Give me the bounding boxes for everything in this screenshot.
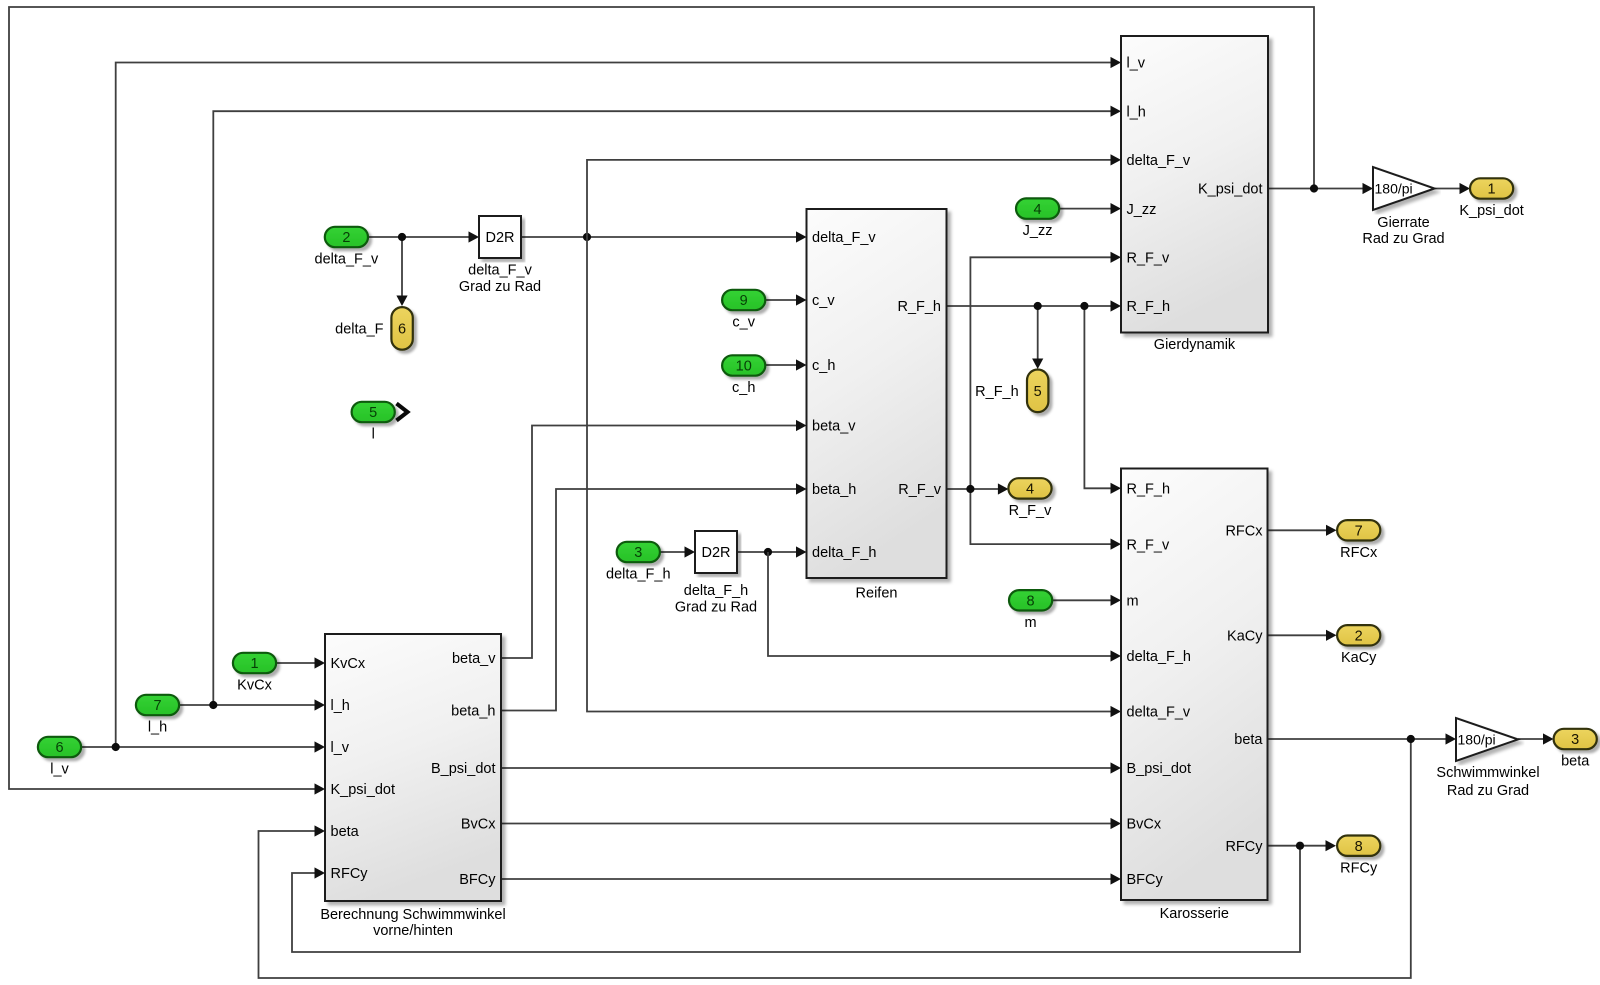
- svg-text:10: 10: [736, 359, 752, 375]
- svg-text:delta_F_v: delta_F_v: [1127, 705, 1191, 721]
- svg-text:KvCx: KvCx: [331, 656, 366, 672]
- junction l_h branch: [209, 701, 217, 709]
- wire gain Gierrate to outport K_psi_dot: [1435, 183, 1471, 194]
- svg-text:l_v: l_v: [1127, 56, 1146, 72]
- wire beta Karosserie to gain Schwimmwinkel: [1268, 733, 1456, 744]
- wire BFCy Berechnung to Karosserie: [501, 873, 1121, 884]
- svg-text:m: m: [1127, 594, 1139, 610]
- svg-text:J_zz: J_zz: [1127, 202, 1157, 218]
- port oval inport 6 l_v: [38, 737, 81, 757]
- wire beta_h Berechnung to Reifen: [501, 483, 807, 710]
- svg-text:K_psi_dot: K_psi_dot: [1459, 203, 1524, 219]
- svg-text:1: 1: [250, 656, 258, 672]
- gain block D2R delta_F_h Grad zu Rad: [695, 531, 737, 573]
- svg-text:RFCy: RFCy: [1225, 839, 1263, 855]
- subsystem block Karosserie: [1121, 469, 1268, 901]
- svg-text:8: 8: [1027, 594, 1035, 610]
- svg-text:Gierdynamik: Gierdynamik: [1154, 337, 1236, 353]
- wire D2R delta_F_v to Reifen: [521, 231, 807, 242]
- junction R_F_h branch 1: [1034, 302, 1042, 310]
- wire delta_F_v rad to Karosserie: [587, 237, 1121, 717]
- svg-text:Rad zu Grad: Rad zu Grad: [1447, 783, 1529, 799]
- svg-text:delta_F_h: delta_F_h: [1127, 649, 1192, 665]
- port oval outport 1 K_psi_dot: [1470, 178, 1513, 198]
- svg-text:R_F_v: R_F_v: [1009, 503, 1052, 519]
- wire KaCy to outport 2: [1268, 630, 1337, 641]
- subsystem block Gierdynamik: [1121, 36, 1268, 333]
- svg-text:Grad zu Rad: Grad zu Rad: [459, 279, 541, 295]
- wire R_F_h to outport 5: [1032, 306, 1043, 369]
- svg-text:180/pi: 180/pi: [1375, 181, 1413, 197]
- wire RFCy to outport 8: [1268, 840, 1336, 851]
- port oval inport 8 m: [1009, 590, 1052, 610]
- wire KvCx inport to Berechnung: [276, 657, 325, 668]
- wire beta feedback to Berechnung: [259, 739, 1411, 978]
- svg-text:R_F_h: R_F_h: [897, 299, 941, 315]
- svg-text:beta_h: beta_h: [451, 704, 495, 720]
- svg-text:delta_F_v: delta_F_v: [1127, 153, 1191, 169]
- svg-text:delta_F_v: delta_F_v: [315, 252, 379, 268]
- svg-text:RFCx: RFCx: [1225, 524, 1263, 540]
- wire R_F_v Reifen to outport 4: [947, 483, 1009, 494]
- svg-text:delta_F_h: delta_F_h: [684, 583, 749, 599]
- svg-text:BFCy: BFCy: [1127, 872, 1164, 888]
- port oval inport 4 J_zz: [1016, 198, 1059, 218]
- port oval inport 3 delta_F_h: [617, 542, 660, 562]
- svg-text:R_F_v: R_F_v: [1127, 251, 1170, 267]
- wire c_h inport to Reifen: [765, 359, 806, 370]
- wire gain Schwimmwinkel to outport beta: [1518, 733, 1554, 744]
- svg-text:c_h: c_h: [812, 358, 835, 374]
- svg-text:3: 3: [634, 545, 642, 561]
- svg-text:K_psi_dot: K_psi_dot: [331, 782, 396, 798]
- wire K_psi_dot feedback loop: [9, 7, 1314, 795]
- svg-text:Schwimmwinkel: Schwimmwinkel: [1436, 765, 1539, 781]
- wire BvCx Berechnung to Karosserie: [501, 818, 1121, 829]
- gain triangle 180/pi Gierrate Rad zu Grad: [1373, 167, 1435, 210]
- junction R_F_h branch 2: [1080, 302, 1088, 310]
- wire beta_v Berechnung to Reifen: [501, 420, 807, 658]
- port oval inport 10 c_h: [722, 355, 765, 375]
- port oval outport 8 RFCy: [1337, 836, 1380, 856]
- svg-text:D2R: D2R: [701, 545, 730, 561]
- svg-text:5: 5: [1034, 384, 1042, 400]
- svg-text:9: 9: [740, 293, 748, 309]
- wire K_psi_dot to gain Gierrate: [1268, 183, 1373, 194]
- gain block D2R delta_F_v Grad zu Rad: [479, 216, 521, 258]
- wire l_v to Gierdynamik: [116, 57, 1121, 747]
- port oval inport 1 KvCx: [233, 653, 276, 673]
- svg-text:RFCy: RFCy: [331, 866, 369, 882]
- svg-text:R_F_v: R_F_v: [1127, 537, 1170, 553]
- svg-text:KvCx: KvCx: [237, 678, 272, 694]
- svg-text:BFCy: BFCy: [459, 872, 496, 888]
- junction delta_F_h rad branch: [764, 548, 772, 556]
- port oval inport 5 l: [352, 402, 395, 422]
- svg-text:delta_F_h: delta_F_h: [812, 545, 877, 561]
- svg-text:J_zz: J_zz: [1023, 223, 1053, 239]
- junction K_psi_dot branch: [1310, 184, 1318, 192]
- svg-text:6: 6: [55, 740, 63, 756]
- svg-text:BvCx: BvCx: [1127, 817, 1162, 833]
- svg-text:l_v: l_v: [331, 740, 350, 756]
- svg-text:beta: beta: [1561, 754, 1590, 770]
- svg-text:D2R: D2R: [485, 230, 514, 246]
- junction R_F_v branch: [966, 485, 974, 493]
- svg-text:c_h: c_h: [732, 380, 755, 396]
- svg-text:B_psi_dot: B_psi_dot: [431, 761, 496, 777]
- svg-text:Rad zu Grad: Rad zu Grad: [1362, 231, 1444, 247]
- svg-text:Karosserie: Karosserie: [1160, 906, 1229, 922]
- junction delta_F_v rad branch: [583, 233, 591, 241]
- wire J_zz inport to Gierdynamik: [1059, 203, 1121, 214]
- wire delta_F_v rad to Gierdynamik: [587, 154, 1121, 237]
- svg-text:delta_F: delta_F: [335, 321, 384, 337]
- svg-text:R_F_h: R_F_h: [1127, 299, 1171, 315]
- port oval inport 2 delta_F_v: [325, 227, 368, 247]
- svg-text:Grad zu Rad: Grad zu Rad: [675, 600, 757, 616]
- svg-text:BvCx: BvCx: [461, 817, 496, 833]
- svg-text:beta_v: beta_v: [452, 651, 496, 667]
- junction RFCy branch: [1296, 842, 1304, 850]
- junction l_v branch: [112, 743, 120, 751]
- svg-text:delta_F_v: delta_F_v: [468, 263, 532, 279]
- port oval outport 6 delta_F: [391, 307, 412, 350]
- wire RFCy feedback to Berechnung: [292, 846, 1300, 952]
- svg-text:180/pi: 180/pi: [1458, 732, 1496, 748]
- svg-text:c_v: c_v: [812, 293, 835, 309]
- svg-text:R_F_h: R_F_h: [975, 384, 1019, 400]
- svg-text:R_F_h: R_F_h: [1127, 482, 1171, 498]
- svg-text:R_F_v: R_F_v: [898, 482, 941, 498]
- unconnected chevron for inport 5: [397, 404, 408, 421]
- svg-text:1: 1: [1488, 182, 1496, 198]
- port oval inport 9 c_v: [722, 290, 765, 310]
- svg-text:l_h: l_h: [331, 698, 350, 714]
- svg-text:K_psi_dot: K_psi_dot: [1198, 182, 1263, 198]
- wire l_v inport to Berechnung: [81, 741, 325, 752]
- svg-text:RFCx: RFCx: [1340, 545, 1378, 561]
- wire delta_F_h rad to Karosserie: [768, 552, 1121, 662]
- svg-text:B_psi_dot: B_psi_dot: [1127, 761, 1192, 777]
- svg-text:Berechnung Schwimmwinkel: Berechnung Schwimmwinkel: [320, 907, 505, 923]
- wire R_F_h Reifen to Gierdynamik: [947, 300, 1122, 311]
- port oval outport 2 KaCy: [1337, 625, 1380, 645]
- svg-text:6: 6: [398, 322, 406, 338]
- svg-text:l_v: l_v: [50, 762, 69, 778]
- wire D2R delta_F_h to Reifen: [737, 546, 807, 557]
- svg-text:8: 8: [1355, 839, 1363, 855]
- svg-text:l_h: l_h: [148, 720, 167, 736]
- wire R_F_v to Karosserie: [970, 489, 1121, 550]
- svg-text:delta_F_h: delta_F_h: [606, 567, 671, 583]
- wire B_psi_dot Berechnung to Karosserie: [501, 762, 1121, 773]
- svg-text:2: 2: [342, 230, 350, 246]
- svg-text:3: 3: [1571, 732, 1579, 748]
- wire c_v inport to Reifen: [765, 294, 806, 305]
- svg-text:beta: beta: [1234, 732, 1263, 748]
- wire delta_F_v inport to D2R: [368, 231, 480, 242]
- svg-text:RFCy: RFCy: [1340, 860, 1378, 876]
- wire R_F_h to Karosserie: [1084, 306, 1121, 494]
- svg-text:4: 4: [1026, 482, 1034, 498]
- svg-text:Gierrate: Gierrate: [1377, 215, 1429, 231]
- svg-text:beta: beta: [331, 824, 360, 840]
- subsystem block Berechnung Schwimmwinkel vorne/hinten: [325, 634, 501, 901]
- junction delta_F_v branch to delta_F: [398, 233, 406, 241]
- svg-text:delta_F_v: delta_F_v: [812, 230, 876, 246]
- svg-text:2: 2: [1355, 629, 1363, 645]
- svg-text:beta_h: beta_h: [812, 482, 856, 498]
- svg-text:c_v: c_v: [732, 315, 755, 331]
- port oval outport 3 beta: [1554, 729, 1597, 749]
- wire delta_F_v to delta_F outport: [396, 237, 407, 306]
- wire l_h to Gierdynamik: [213, 106, 1121, 705]
- svg-text:beta_v: beta_v: [812, 419, 856, 435]
- wire RFCx to outport 7: [1268, 525, 1337, 536]
- svg-text:KaCy: KaCy: [1341, 650, 1377, 666]
- port oval outport 7 RFCx: [1337, 520, 1380, 540]
- svg-text:l_h: l_h: [1127, 104, 1146, 120]
- subsystem block Reifen: [807, 209, 947, 578]
- junction beta branch: [1407, 735, 1415, 743]
- svg-text:Reifen: Reifen: [856, 586, 898, 602]
- wire R_F_v to Gierdynamik: [970, 252, 1121, 489]
- wire m inport to Karosserie: [1052, 595, 1121, 606]
- port oval outport 5 R_F_h: [1027, 370, 1048, 413]
- svg-text:vorne/hinten: vorne/hinten: [373, 923, 453, 939]
- svg-text:4: 4: [1034, 202, 1042, 218]
- svg-text:7: 7: [153, 698, 161, 714]
- wire l_h inport to Berechnung: [179, 699, 325, 710]
- gain triangle 180/pi Schwimmwinkel Rad zu Grad: [1456, 718, 1518, 761]
- port oval inport 7 l_h: [136, 695, 179, 715]
- svg-text:l: l: [372, 427, 375, 443]
- svg-text:5: 5: [369, 405, 377, 421]
- svg-text:KaCy: KaCy: [1227, 629, 1263, 645]
- svg-text:7: 7: [1355, 524, 1363, 540]
- svg-text:m: m: [1025, 615, 1037, 631]
- wire delta_F_h inport to D2R: [660, 546, 695, 557]
- port oval outport 4 R_F_v: [1008, 478, 1051, 498]
